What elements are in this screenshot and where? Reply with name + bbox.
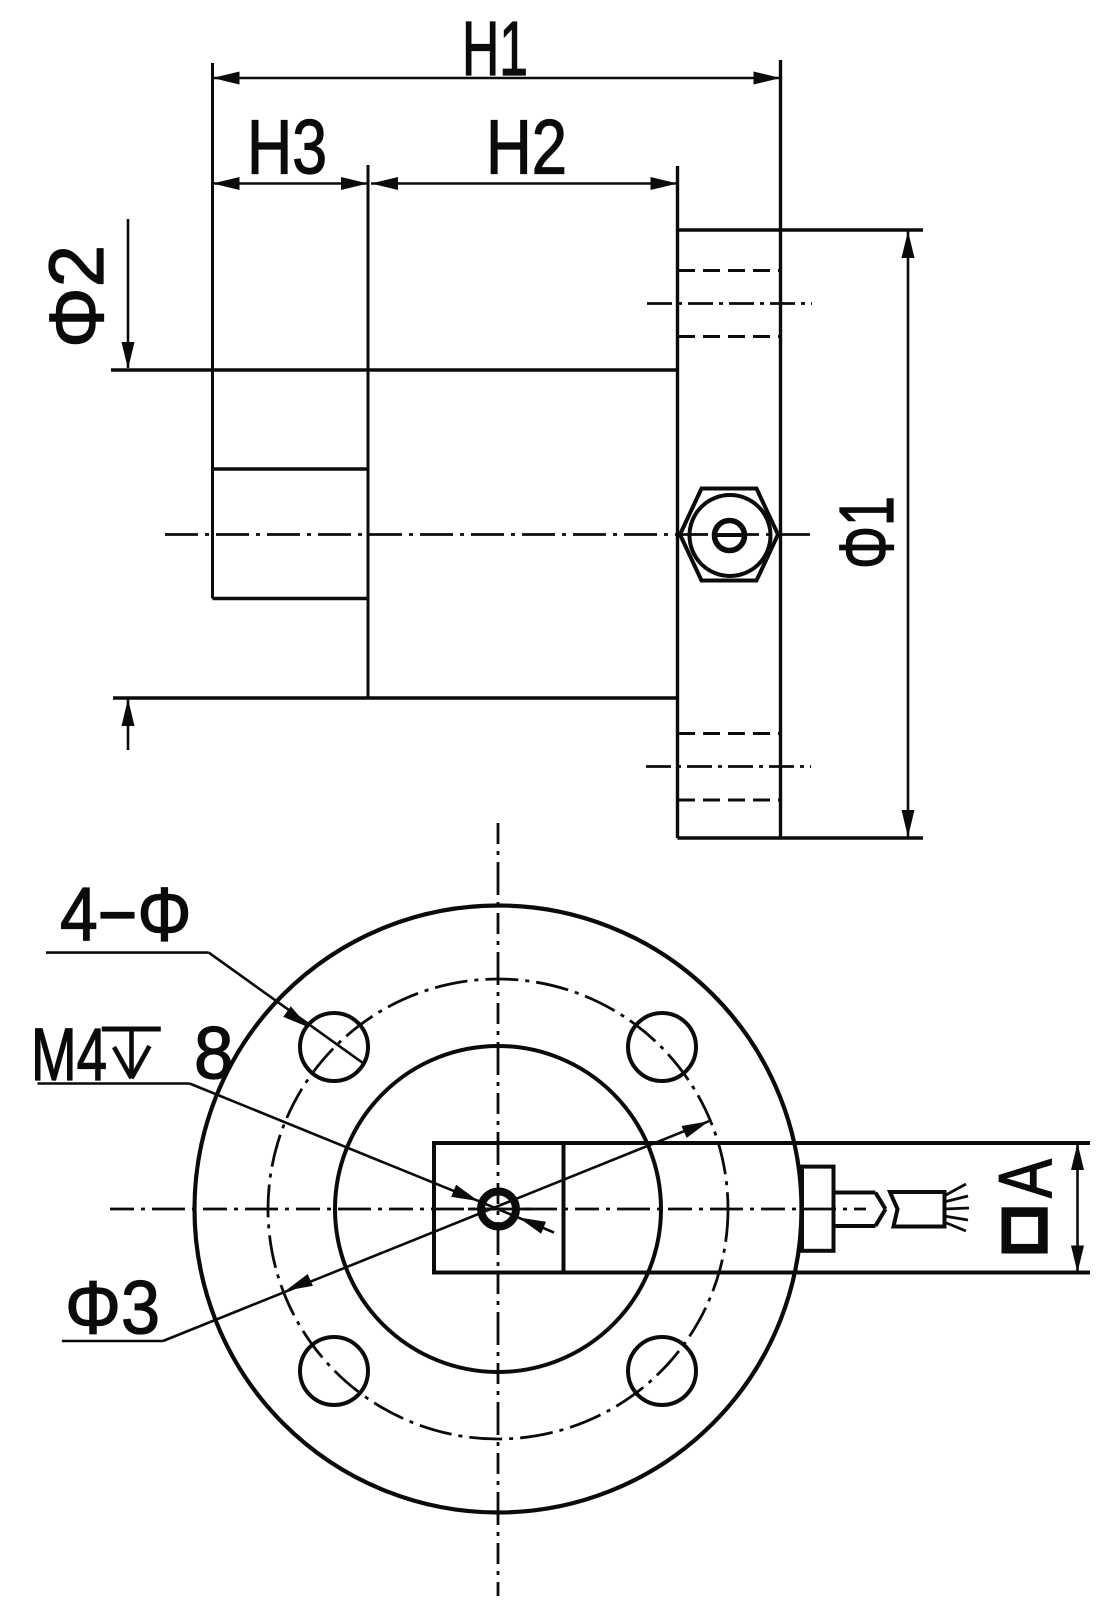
dimension H2	[371, 182, 678, 185]
band bottom line	[434, 1271, 1090, 1275]
bolt hole bottom-left	[300, 1337, 368, 1405]
leader 4-phi	[46, 951, 209, 954]
flange bottom edge + phi1 extension	[678, 836, 924, 839]
bolt hole top-right	[628, 1013, 696, 1081]
bolt circle (center line)	[268, 979, 728, 1439]
dimension square A	[1076, 1143, 1079, 1273]
connector stem	[834, 1191, 876, 1195]
dimension H3	[213, 182, 369, 185]
cable end	[890, 1192, 945, 1227]
outer flange circle	[195, 906, 802, 1513]
svg-text:4−Φ: 4−Φ	[60, 873, 192, 958]
square symbol	[1006, 1212, 1043, 1249]
square boss	[434, 1143, 564, 1273]
dimension phi2	[127, 219, 130, 368]
svg-text:Φ1: Φ1	[824, 496, 910, 569]
lower bolt hole hidden lines	[678, 732, 781, 735]
svg-text:A: A	[983, 1159, 1067, 1198]
svg-text:H3: H3	[247, 105, 327, 191]
svg-text:Φ3: Φ3	[65, 1266, 160, 1350]
shaft step upper line	[213, 467, 369, 470]
dimension phi1	[907, 231, 910, 837]
lower bolt hole center line	[646, 765, 811, 768]
band top line	[434, 1141, 1090, 1145]
inner body circle	[335, 1046, 661, 1372]
svg-text:M4: M4	[31, 1013, 107, 1096]
upper bolt hole center line	[647, 302, 812, 305]
connector inner circle	[715, 521, 745, 551]
connector slot line	[713, 533, 747, 537]
flange right edge / H1 extension	[779, 60, 782, 838]
bolt hole top-left	[300, 1013, 368, 1081]
depth symbol	[102, 1027, 161, 1032]
M4 tapped hole (bold circle)	[481, 1192, 516, 1227]
vertical center line (plan)	[497, 823, 500, 1596]
leader phi3 (bolt circle diameter)	[62, 1340, 163, 1343]
svg-text:8: 8	[194, 1012, 234, 1095]
dimension H1	[213, 77, 781, 80]
svg-text:Φ2: Φ2	[34, 245, 120, 348]
center axis (side view)	[165, 533, 810, 536]
flange top edge + phi1 extension	[678, 228, 924, 231]
bolt hole bottom-right	[628, 1337, 696, 1405]
horizontal center line (plan)	[110, 1208, 866, 1211]
body top outline	[111, 368, 678, 371]
leader M4 depth 8	[38, 1082, 190, 1085]
flange left edge	[676, 166, 679, 838]
svg-text:H2: H2	[486, 105, 567, 191]
body bottom outline	[113, 696, 678, 699]
shaft step lower line	[213, 597, 369, 600]
connector plug body	[802, 1167, 834, 1251]
wires	[944, 1184, 966, 1196]
hex connector nut	[680, 489, 778, 581]
divider H3/H2 extension line	[367, 165, 370, 698]
upper bolt hole hidden lines	[678, 269, 781, 272]
svg-text:H1: H1	[462, 6, 528, 92]
connector outer circle	[690, 495, 771, 576]
left edge / H1-H3 extension line	[211, 63, 214, 599]
